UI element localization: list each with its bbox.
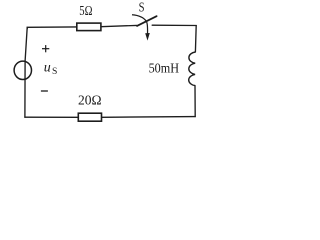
wire top-right (switch right contact to corner): [152, 24, 196, 26]
label - (source polarity): [41, 90, 48, 92]
wire top-middle (R1 to switch left contact): [101, 25, 137, 26]
resistor R1 5ohm box: [77, 23, 101, 31]
voltage source u_S circle: [14, 61, 31, 79]
switch closing arrow (curved, pointing down): [132, 15, 148, 34]
wire right upper (corner to inductor): [194, 26, 197, 53]
svg-text:S: S: [52, 66, 57, 77]
svg-text:u: u: [44, 60, 51, 75]
switch S blade: [137, 16, 157, 26]
svg-text:S: S: [139, 1, 145, 16]
svg-text:5Ω: 5Ω: [79, 4, 92, 19]
wire left (corner up through source to top corner): [25, 27, 27, 117]
svg-text:50mH: 50mH: [149, 61, 179, 76]
wire right lower (inductor to corner): [194, 86, 196, 117]
wire top-left (corner to R1): [27, 27, 77, 29]
inductor L 50mH coil: [189, 52, 196, 86]
wire bottom-left (R2 to corner): [25, 116, 78, 118]
wire bottom-right (corner to R2): [102, 116, 196, 119]
svg-text:20Ω: 20Ω: [78, 93, 102, 108]
resistor R2 20ohm box: [78, 113, 101, 121]
label + (source polarity): [42, 45, 49, 52]
